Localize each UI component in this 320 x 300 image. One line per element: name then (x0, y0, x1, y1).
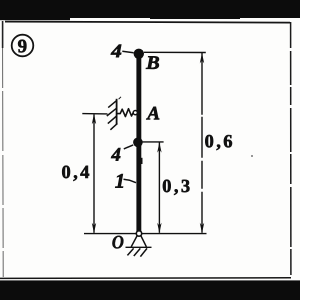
label O (112, 236, 123, 249)
ground line (84, 233, 207, 235)
frame bottom border (0, 277, 291, 280)
label 4 (top ball) (111, 45, 134, 58)
circled number 9 (12, 35, 34, 57)
dimension 0,6 (right) (144, 52, 232, 233)
label B (146, 56, 159, 69)
label 1 (rod pointer) (115, 174, 136, 188)
label A (146, 107, 159, 120)
frame right border (290, 22, 292, 278)
rod 1 (vertical bar OB) (136, 53, 141, 232)
speck dot right (251, 155, 253, 157)
frame left border (2, 21, 5, 277)
ball at middle (133, 138, 143, 148)
wall support (hatched) (107, 97, 121, 130)
frame top border (5, 22, 290, 23)
pin support at O (126, 231, 152, 248)
scan top black band (0, 0, 300, 20)
dimension 0,4 (left) (62, 114, 107, 234)
rod nub (141, 158, 143, 164)
ball at B (134, 49, 144, 59)
scan bottom black band (0, 280, 300, 300)
label 4 (middle ball) (111, 145, 133, 161)
spring (wall to rod at A) (117, 109, 138, 117)
ground hatches at O (127, 248, 147, 256)
dimension 0,3 (middle) (143, 142, 190, 233)
